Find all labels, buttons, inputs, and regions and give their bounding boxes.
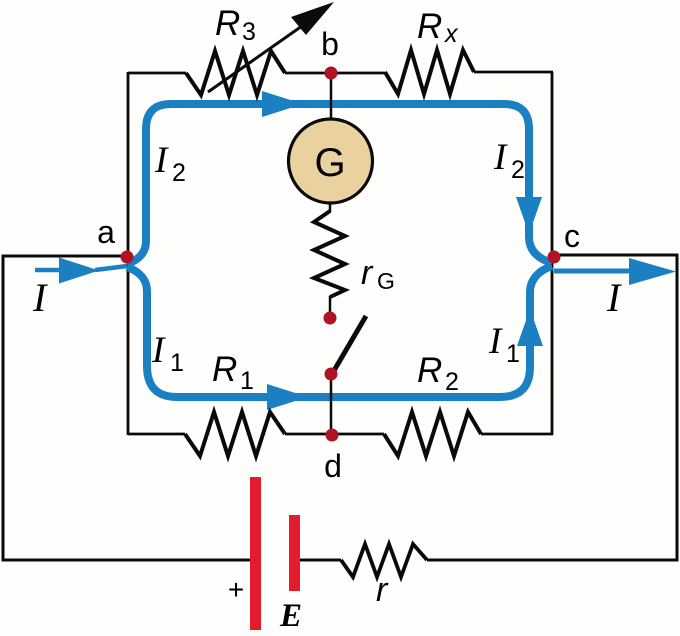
svg-text:2: 2 xyxy=(511,156,525,184)
svg-text:R: R xyxy=(212,350,237,389)
node b xyxy=(325,67,338,80)
svg-text:1: 1 xyxy=(506,340,520,368)
blue arrow down right (I2 into c) xyxy=(516,197,542,234)
wire bridge top: Rx to right corner xyxy=(474,71,553,74)
resistor R3 variable arrow xyxy=(208,26,302,92)
svg-text:a: a xyxy=(97,214,115,250)
svg-text:r: r xyxy=(376,571,389,609)
node c xyxy=(548,251,561,264)
resistor R1 zigzag xyxy=(185,412,285,456)
svg-text:c: c xyxy=(564,218,580,254)
svg-text:R: R xyxy=(417,7,442,46)
svg-text:R: R xyxy=(417,351,442,390)
blue current path I2 (a to c via top) xyxy=(127,104,552,264)
wire rG to switch dot xyxy=(329,296,332,314)
svg-text:b: b xyxy=(321,26,339,62)
blue arrow up right (I1 into c) xyxy=(517,309,543,346)
svg-text:2: 2 xyxy=(445,368,459,396)
wire bridge bottom: corner to R1 xyxy=(128,433,185,436)
svg-text:2: 2 xyxy=(172,159,186,187)
svg-text:E: E xyxy=(279,598,302,634)
resistor R2 zigzag xyxy=(384,412,481,456)
svg-text:r: r xyxy=(361,254,374,292)
resistor Rx zigzag xyxy=(385,50,474,94)
blue current path I1 (a to c via bottom) xyxy=(127,266,552,397)
wire battery to resistor r xyxy=(300,559,341,562)
svg-text:1: 1 xyxy=(170,349,184,377)
resistor rG zigzag (vertical) xyxy=(314,211,345,297)
svg-text:I: I xyxy=(154,140,169,181)
blue arrow on top branch (I2) xyxy=(262,91,303,117)
wire bridge bottom: R2 to right corner xyxy=(481,433,553,436)
svg-text:+: + xyxy=(228,574,244,605)
node a xyxy=(121,251,134,264)
blue entry current arrow I (left) xyxy=(35,268,62,273)
svg-text:I: I xyxy=(493,137,508,178)
wire outer loop left: from node a to left edge, down, and bottom toward battery xyxy=(3,256,250,560)
blue exit current arrow I (right) xyxy=(554,269,640,274)
blue arrow on bottom branch (I1) xyxy=(267,384,308,410)
resistor R3 (variable) zigzag xyxy=(186,51,285,95)
svg-text:G: G xyxy=(314,141,345,185)
svg-text:I: I xyxy=(606,275,622,320)
svg-text:G: G xyxy=(377,268,395,294)
svg-text:d: d xyxy=(324,448,342,484)
svg-text:I: I xyxy=(488,321,503,362)
battery short plate (-) xyxy=(289,515,300,591)
node rG bottom xyxy=(324,312,337,325)
wire switch to node d xyxy=(330,374,333,435)
wire resistor r to outer right, up to node c xyxy=(427,255,677,560)
wire G to rG xyxy=(329,203,332,212)
wire bridge bottom: R1-d-R2 xyxy=(285,433,384,436)
svg-text:x: x xyxy=(444,20,459,48)
wire node b stem xyxy=(330,73,333,119)
node switch pivot xyxy=(325,368,338,381)
svg-text:I: I xyxy=(32,275,48,320)
wire bridge left edge xyxy=(127,72,130,435)
resistor r zigzag xyxy=(341,544,427,577)
battery long plate (+) xyxy=(250,477,261,630)
wire bridge top: a-R3 xyxy=(128,72,186,75)
wire bridge right edge xyxy=(551,72,554,435)
galvanometer G xyxy=(289,119,373,203)
node d xyxy=(326,429,339,442)
svg-text:3: 3 xyxy=(242,18,256,46)
svg-text:R: R xyxy=(215,4,240,43)
wire bridge top: R3-b-Rx xyxy=(285,72,385,75)
svg-text:1: 1 xyxy=(240,367,254,395)
switch blade (open) xyxy=(332,316,366,374)
svg-text:I: I xyxy=(151,330,166,371)
